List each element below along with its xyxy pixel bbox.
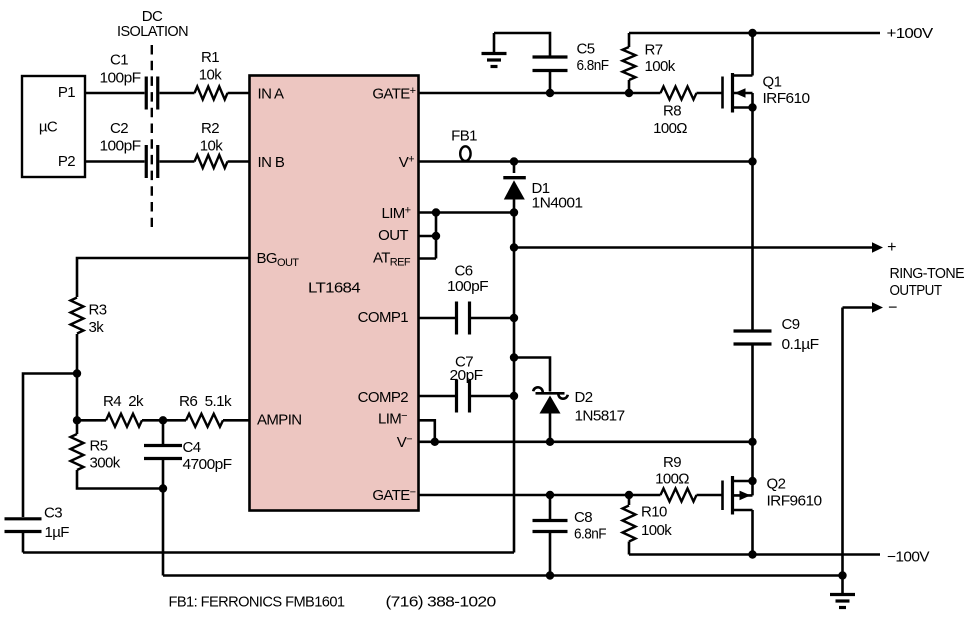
wire C5 bottom	[549, 72, 552, 93]
wire COMP1 to C6	[419, 317, 456, 320]
wire D1 column lower	[513, 213, 516, 553]
wire BGOUT	[77, 258, 250, 297]
pin label BGOUT	[257, 250, 300, 269]
capacitor C7	[457, 380, 470, 413]
svg-text:R5: R5	[90, 437, 108, 454]
label C1 100pF	[100, 51, 141, 86]
svg-text:1N4001: 1N4001	[532, 194, 583, 211]
wire V- line	[419, 440, 753, 443]
label uC	[39, 118, 58, 135]
svg-text:C3: C3	[44, 504, 62, 521]
label +100V	[887, 25, 934, 42]
label D1 1N4001	[532, 180, 583, 212]
svg-text:100Ω: 100Ω	[655, 470, 689, 487]
label R5 300k	[90, 437, 121, 471]
pin label ATREF	[373, 250, 411, 269]
resistor R9	[661, 489, 697, 502]
wire C4 top lead	[162, 420, 165, 444]
svg-text:C8: C8	[574, 509, 592, 526]
resistor R2	[195, 155, 228, 168]
wire ring-tone + line	[514, 246, 873, 249]
svg-text:100pF: 100pF	[100, 137, 141, 154]
svg-text:GATE+: GATE+	[372, 85, 415, 103]
junction C4 R5 bottom	[159, 484, 167, 492]
wire C6 to column	[471, 317, 514, 320]
label R8 100ohm	[653, 102, 687, 136]
svg-text:P2: P2	[58, 153, 75, 170]
label Q2 IRF9610	[767, 475, 822, 509]
pin label LIM+	[381, 205, 410, 223]
svg-text:OUT: OUT	[378, 227, 408, 244]
resistor R7	[623, 47, 636, 80]
svg-text:4700pF: 4700pF	[183, 456, 232, 473]
wire Q2 drain vertical	[751, 510, 754, 555]
wire R1 to IN A	[228, 92, 250, 95]
wire ground stub bottom	[841, 576, 844, 594]
junction V+ Q1	[748, 157, 756, 165]
wire ground stub top	[493, 33, 496, 52]
svg-text:IN A: IN A	[258, 85, 285, 102]
capacitor C8	[533, 521, 568, 532]
capacitor C1	[146, 77, 158, 110]
label + output	[887, 239, 896, 256]
svg-text:R10: R10	[641, 503, 667, 520]
wire P1 to C1	[85, 92, 145, 95]
label DC ISOLATION	[117, 8, 188, 40]
ground bottom	[830, 595, 855, 608]
wire P2 to C2	[85, 160, 145, 163]
svg-text:R4 2k: R4 2k	[103, 393, 144, 410]
ground top	[482, 54, 507, 67]
wire D2 branch	[514, 358, 550, 392]
wire COMP2 to C7	[419, 395, 456, 398]
label RING-TONE OUTPUT	[890, 265, 965, 299]
wire R10 top lead	[628, 495, 631, 505]
junction Q1 source	[748, 103, 756, 111]
label C4 4700pF	[183, 439, 232, 473]
svg-text:300k: 300k	[90, 454, 121, 471]
junction V- Q2	[748, 438, 756, 446]
label C5 6.8nF	[577, 40, 609, 74]
svg-text:C5: C5	[577, 40, 595, 57]
svg-text:6.8nF: 6.8nF	[577, 57, 609, 74]
junction -100V Q2 drain	[748, 550, 756, 558]
label LT1684	[308, 279, 360, 296]
svg-text:C9: C9	[782, 316, 800, 333]
label D2 1N5817	[575, 389, 625, 425]
junction LIM+ tie	[432, 208, 440, 216]
capacitor C6	[457, 302, 470, 335]
wire node to R4	[77, 419, 106, 422]
junction GATE+ R7	[625, 89, 633, 97]
pin label LIM-	[378, 410, 407, 428]
svg-text:−100V: −100V	[887, 548, 930, 565]
wire ATREF stub	[419, 257, 437, 260]
svg-text:µC: µC	[39, 118, 58, 135]
svg-text:R3: R3	[89, 301, 107, 318]
microcontroller box uC	[22, 76, 85, 177]
junction AMPIN left	[73, 416, 81, 424]
label C6 100pF	[447, 262, 488, 295]
junction C8 line B	[546, 571, 554, 579]
capacitor C4	[144, 446, 182, 459]
wire C4 node to line B	[162, 489, 165, 576]
svg-text:IRF9610: IRF9610	[767, 492, 822, 509]
junction C4 top node	[159, 416, 167, 424]
label C3 1uF	[44, 504, 69, 541]
ferrite bead FB1	[460, 146, 470, 161]
junction GATE- R10	[625, 491, 633, 499]
resistor R5	[71, 434, 84, 470]
wire R9 to Q2 gate	[697, 494, 723, 497]
svg-text:100k: 100k	[645, 58, 676, 75]
junction COMP2 column	[510, 392, 518, 400]
label -100V	[887, 548, 930, 565]
label R6 5.1k	[179, 393, 232, 410]
junction rail Q1 drain	[748, 29, 756, 37]
junction GATE- C8	[546, 491, 554, 499]
wire GATE+ to R8	[419, 92, 661, 95]
pin label P2	[58, 153, 75, 170]
wire GATE- to R9	[419, 494, 661, 497]
wire ring-tone - line	[843, 306, 873, 309]
pin label COMP1	[358, 309, 409, 326]
resistor R4	[106, 414, 142, 427]
pin label GATE-	[372, 487, 415, 505]
svg-text:C2: C2	[110, 120, 128, 137]
svg-text:20pF: 20pF	[450, 367, 483, 384]
op-amp U1 LT1684 body	[250, 76, 419, 511]
junction V+ D1	[510, 157, 518, 165]
pin label OUT	[378, 227, 408, 244]
pin label P1	[58, 84, 75, 101]
svg-text:R1: R1	[201, 49, 219, 66]
junction LIM+ D1 column	[510, 208, 518, 216]
svg-text:1µF: 1µF	[45, 524, 70, 541]
svg-text:Q1: Q1	[763, 73, 782, 90]
svg-text:1N5817: 1N5817	[575, 407, 625, 424]
svg-text:LT1684: LT1684	[308, 279, 360, 296]
svg-text:−: −	[888, 300, 897, 317]
junction OUT tie	[432, 232, 440, 240]
pin label IN A	[258, 85, 285, 102]
label R2 10k	[200, 120, 223, 155]
label R7 100k	[645, 41, 676, 75]
label C2 100pF	[100, 120, 141, 155]
arrow ring-tone +	[872, 242, 883, 252]
wire R4 to C4 node	[142, 419, 186, 422]
svg-text:0.1µF: 0.1µF	[782, 336, 819, 353]
junction GATE+ C5	[546, 89, 554, 97]
wire C9 bottom lead	[751, 346, 754, 442]
wire node to C3	[23, 374, 77, 518]
svg-text:R2: R2	[201, 120, 219, 137]
wire R5 top lead	[76, 420, 79, 434]
wire R7 bottom	[628, 80, 631, 93]
label R10 100k	[641, 503, 672, 539]
wire - output vertical	[841, 308, 844, 576]
svg-text:C4: C4	[183, 439, 201, 456]
svg-text:FB1: FERRONICS FMB1601: FB1: FERRONICS FMB1601	[169, 593, 345, 610]
wire Q1 source to V+	[751, 93, 754, 162]
resistor R1	[195, 87, 228, 100]
wire +100V rail	[629, 32, 880, 35]
label Q1 IRF610	[763, 73, 810, 107]
label C8 6.8nF	[574, 509, 606, 543]
resistor R10	[623, 506, 636, 542]
wire LIM- stub	[419, 420, 435, 442]
svg-text:GATE−: GATE−	[372, 487, 415, 505]
label FB1 note	[169, 593, 496, 610]
svg-text:IRF610: IRF610	[763, 90, 810, 107]
wire Q2 source vertical	[751, 442, 754, 496]
dashed isolation line	[151, 45, 153, 227]
label C9 0.1uF	[782, 316, 819, 353]
svg-text:C6: C6	[455, 262, 473, 279]
wire C8 top lead	[549, 495, 552, 519]
junction COMP1 column	[510, 314, 518, 322]
pin label V-	[397, 434, 412, 452]
pin label IN B	[258, 154, 285, 171]
svg-text:+: +	[887, 239, 896, 256]
svg-text:6.8nF: 6.8nF	[574, 525, 606, 542]
svg-text:100Ω: 100Ω	[653, 120, 687, 137]
resistor R3	[71, 298, 84, 334]
diode D2 1N5817 schottky	[533, 387, 568, 413]
svg-text:(716) 388-1020: (716) 388-1020	[386, 593, 496, 610]
svg-text:OUTPUT: OUTPUT	[890, 282, 942, 299]
label R3 3k	[89, 301, 107, 336]
svg-text:R8: R8	[663, 102, 681, 119]
arrow ring-tone -	[872, 302, 883, 312]
wire C2 to R2	[160, 160, 195, 163]
wire D1 bottom lead	[513, 199, 516, 213]
svg-text:R9: R9	[663, 454, 681, 471]
svg-text:+100V: +100V	[887, 25, 934, 42]
capacitor C2	[146, 145, 158, 178]
junction OUT column	[510, 243, 518, 251]
svg-text:ISOLATION: ISOLATION	[117, 23, 188, 40]
wire C7 to column	[471, 395, 514, 398]
wire R10 bottom lead	[628, 542, 631, 555]
resistor R8	[661, 87, 697, 100]
svg-text:10k: 10k	[199, 66, 222, 83]
svg-text:COMP1: COMP1	[358, 309, 409, 326]
capacitor C5	[533, 57, 568, 71]
wire LIM+ line	[419, 211, 515, 214]
wire tie vertical	[435, 213, 438, 259]
wire C5 top	[494, 33, 550, 56]
junction Q2 source	[748, 477, 756, 485]
pin label GATE+	[372, 85, 415, 103]
pin label V+	[399, 154, 414, 172]
wire R7 top	[628, 33, 631, 47]
junction LIM- V-	[431, 438, 439, 446]
label FB1	[451, 127, 477, 144]
wire Q1 drain	[751, 33, 754, 76]
wire R8 to Q1 gate	[697, 92, 723, 95]
svg-text:100pF: 100pF	[100, 69, 141, 86]
svg-text:AMPIN: AMPIN	[257, 411, 302, 428]
wire R5 bottom	[77, 470, 163, 489]
svg-text:D2: D2	[575, 389, 593, 406]
svg-text:RING-TONE: RING-TONE	[890, 265, 965, 282]
svg-text:R6 5.1k: R6 5.1k	[179, 393, 232, 410]
wire R6 to AMPIN	[223, 419, 250, 422]
wire -100V rail	[629, 553, 880, 556]
wire OUT stub	[419, 235, 437, 238]
junction V- D2	[546, 438, 554, 446]
label R4 2k	[103, 393, 144, 410]
transistor Q1 IRF610	[723, 73, 753, 113]
pin label COMP2	[358, 389, 409, 406]
svg-text:FB1: FB1	[451, 127, 477, 144]
svg-text:R7: R7	[645, 41, 663, 58]
svg-text:100pF: 100pF	[447, 278, 488, 295]
wire line B	[163, 574, 843, 577]
wire C8 bottom lead	[549, 533, 552, 576]
capacitor C3	[5, 519, 42, 532]
wire D1 top lead	[513, 162, 516, 174]
transistor Q2 IRF9610	[723, 476, 753, 515]
label R9 100ohm	[655, 454, 689, 488]
label C7 20pF	[450, 353, 483, 384]
svg-text:100k: 100k	[641, 522, 672, 539]
wire C3 bottom	[22, 533, 25, 553]
diode D1 1N4001	[503, 178, 526, 200]
wire line A	[23, 551, 514, 554]
svg-text:P1: P1	[58, 84, 75, 101]
svg-text:10k: 10k	[200, 137, 223, 154]
wire V+ line	[419, 160, 753, 163]
svg-text:COMP2: COMP2	[358, 389, 409, 406]
svg-text:Q2: Q2	[767, 475, 786, 492]
svg-text:C1: C1	[110, 51, 128, 68]
capacitor C9	[734, 331, 772, 344]
wire C9 top lead	[751, 162, 754, 330]
junction line B ground	[838, 571, 846, 579]
pin label AMPIN	[257, 411, 302, 428]
label - output	[888, 300, 897, 317]
wire R3 to node	[76, 334, 79, 420]
wire C4 bottom lead	[162, 460, 165, 489]
svg-text:3k: 3k	[89, 319, 105, 336]
wire D2 bottom lead	[549, 414, 552, 442]
svg-text:IN B: IN B	[258, 154, 285, 171]
node R3 bottom	[73, 369, 81, 377]
junction D2 branch column	[510, 353, 518, 361]
label R1 10k	[199, 49, 222, 84]
wire R2 to IN B	[228, 160, 250, 163]
resistor R6	[186, 414, 223, 427]
wire C1 to R1	[160, 92, 195, 95]
